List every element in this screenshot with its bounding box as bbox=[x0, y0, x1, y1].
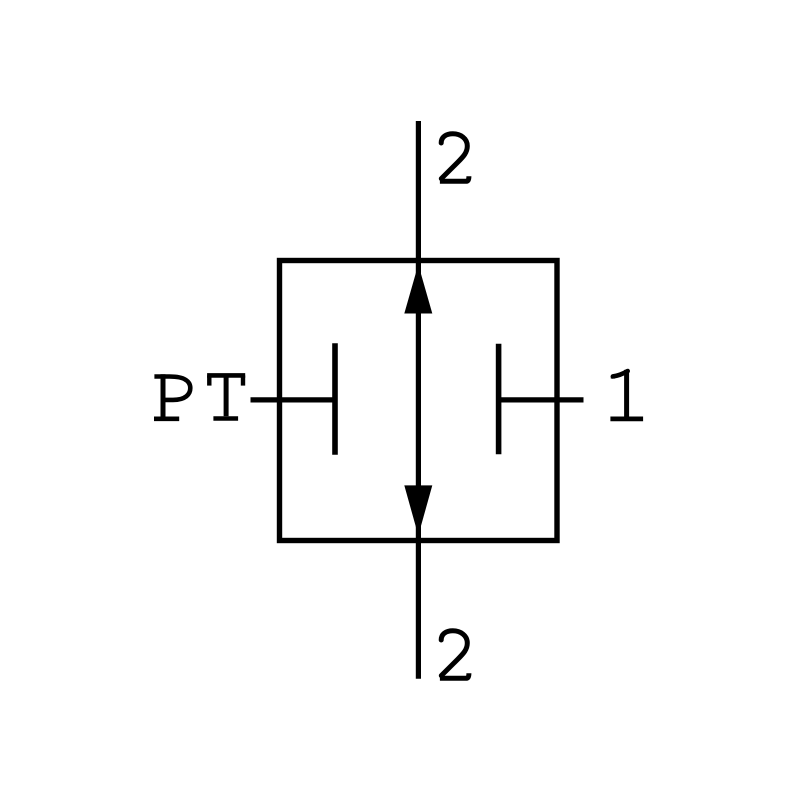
flow arrow up (check valve free-flow direction, top) bbox=[404, 265, 432, 314]
right port plug tick (blocked port 1) bbox=[496, 344, 502, 455]
wire: vertical pilot line from port 2 (top) through valve to port 2 (bottom) bbox=[416, 121, 421, 679]
wire: left port PT stub bbox=[251, 397, 336, 402]
label 2 (top port number) bbox=[440, 134, 469, 182]
left port plug tick (blocked port PT) bbox=[332, 343, 338, 455]
label 2 (bottom port number) bbox=[440, 631, 469, 679]
label PT : letter P bbox=[154, 374, 190, 421]
label 1 (right port number) bbox=[610, 370, 643, 419]
flow arrow down (check valve free-flow direction, bottom) bbox=[404, 485, 432, 535]
wire: right port 1 stub bbox=[499, 397, 584, 402]
valve body box bbox=[280, 261, 558, 541]
label PT : letter T bbox=[207, 375, 245, 418]
